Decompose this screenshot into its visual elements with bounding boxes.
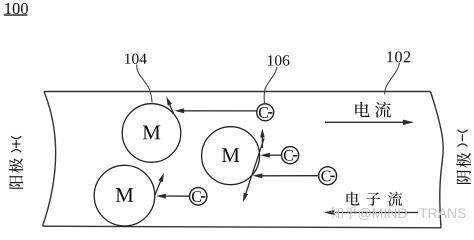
arrow out of M1 [168,102,173,114]
cathode label yinji(-) [456,153,471,184]
arrow up out of M2 [261,134,263,148]
arrow C2 to M2 [266,154,282,156]
arrow C4 to M3 [162,195,190,197]
label 106 [268,55,273,65]
arrow C3 to M2 [258,175,318,177]
watermark zhihu @MIND TRANS [331,207,466,220]
metal particle M3 [94,165,155,226]
ion C1 [257,104,274,121]
strip bottom edge [43,226,441,228]
ion C2 [282,147,299,164]
metal particle M1 [122,104,181,163]
current arrow [325,121,407,123]
electron flow arrow [331,212,418,214]
strip right cut edge [431,92,444,228]
arrow C1 to M1 [180,110,257,112]
label 100 [5,3,11,14]
label dianliu (current) [355,102,369,117]
anode label yangji(+) [9,158,23,188]
leader 102 [385,63,400,95]
arrow out of M3 [155,178,162,196]
label dianziliu (electron flow) [346,192,359,206]
leader 106 [264,67,277,104]
substrate strip 102 outline [44,91,431,93]
diagonal arrow through M2 edge [245,139,264,197]
strip left cut edge [43,92,56,227]
ion C3 [319,167,337,185]
ion C4 [190,188,207,205]
label 104 [125,54,130,64]
metal particle M2 [202,127,260,185]
leader 104 [137,65,152,103]
label 102 [387,51,393,62]
